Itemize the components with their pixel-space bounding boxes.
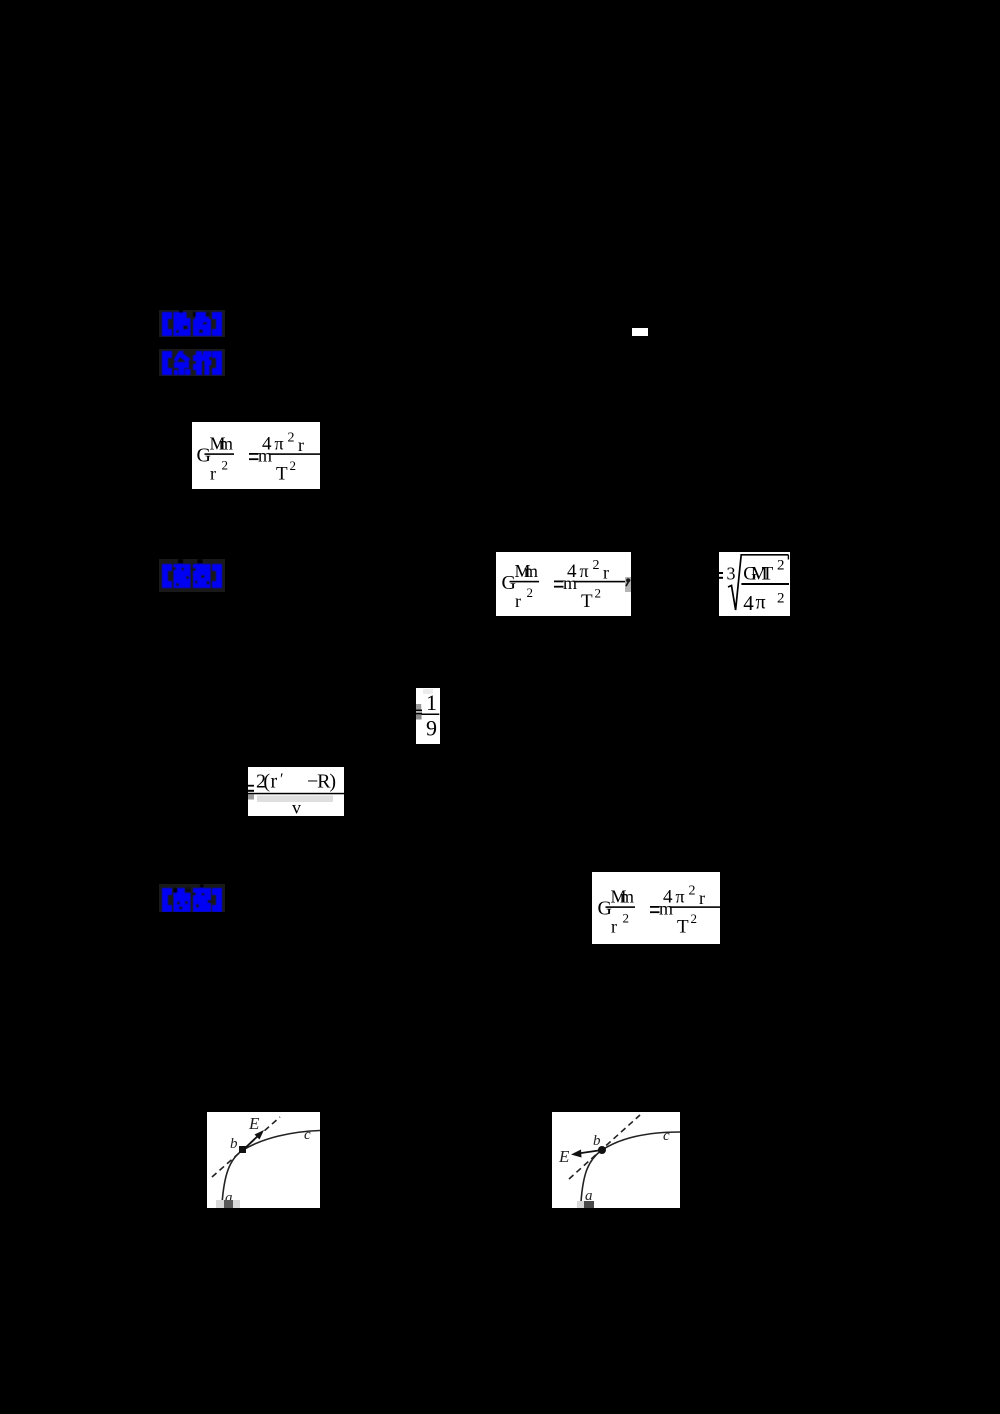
comma artifact on gray selection: [625, 577, 631, 592]
label 分析 (blue tag row 2): [159, 348, 225, 376]
svg-text:E: E: [248, 1114, 260, 1133]
svg-text:2: 2: [777, 591, 785, 607]
curve a to c: [581, 1132, 680, 1202]
figure 1: curve a-b-c with tangent and E arrow up-right: [207, 1112, 320, 1208]
svg-text:r: r: [271, 771, 278, 793]
inline tiny formula image (white fragment): [632, 328, 648, 336]
svg-text:T: T: [677, 917, 689, 938]
svg-text:2: 2: [288, 431, 295, 446]
svg-text:r: r: [603, 563, 609, 583]
formula image 5: = 2(r'-R)/v: [248, 767, 344, 816]
svg-text:π: π: [676, 887, 685, 907]
svg-text:2: 2: [593, 558, 600, 573]
svg-text:E: E: [558, 1147, 570, 1166]
dashed tangent line: [569, 1115, 640, 1179]
E arrow from b to the left: [578, 1150, 602, 1154]
svg-text:c: c: [663, 1128, 670, 1144]
svg-text:3: 3: [727, 564, 736, 584]
svg-text:r: r: [298, 435, 304, 455]
svg-text:2: 2: [689, 884, 696, 899]
svg-text:9: 9: [426, 715, 437, 740]
gray marks at bottom: [216, 1200, 240, 1208]
svg-text:2: 2: [777, 558, 785, 574]
svg-text:Mm: Mm: [210, 434, 234, 454]
formula image 6: G·Mm/r² = m·4π²r/T² (third): [592, 872, 720, 944]
formula image 3: = cube root of GMT²/4π²: [719, 552, 790, 616]
label 考点 (blue tag row 1): [159, 309, 225, 337]
svg-text:GMT: GMT: [743, 564, 773, 585]
svg-text:Mm: Mm: [515, 561, 539, 581]
label 点评 (blue tag row 4): [159, 884, 225, 912]
svg-text:T: T: [581, 591, 593, 612]
svg-text:π: π: [275, 434, 284, 454]
svg-text:r: r: [515, 591, 521, 611]
svg-text:π: π: [580, 561, 589, 581]
svg-text:4: 4: [663, 887, 673, 908]
svg-text:1: 1: [426, 690, 437, 715]
svg-text:2(: 2(: [256, 771, 270, 793]
dashed tangent line: [212, 1117, 280, 1177]
label 解答 (blue tag row 3): [159, 559, 225, 593]
svg-text:c: c: [304, 1127, 311, 1143]
svg-text:b: b: [230, 1136, 238, 1152]
svg-text:2: 2: [527, 585, 534, 600]
svg-text:b: b: [593, 1133, 601, 1149]
labels: [225, 1114, 311, 1206]
svg-text:T: T: [276, 464, 288, 485]
radical sign: [728, 555, 788, 610]
E arrow from b: [243, 1133, 261, 1150]
formula image 2: G·Mm/r² = m·4π²r/T² (second): [496, 552, 631, 616]
svg-text:2: 2: [691, 911, 698, 926]
point b dot: [239, 1146, 246, 1153]
svg-text:r: r: [210, 464, 216, 484]
labels: [558, 1128, 670, 1204]
svg-text:4: 4: [262, 434, 272, 455]
svg-text:′: ′: [280, 771, 284, 788]
svg-text:2: 2: [290, 458, 297, 473]
svg-text:4: 4: [567, 561, 577, 582]
svg-text:4: 4: [743, 591, 754, 615]
formula image 1: G·Mm/r² = m·4π²r/T²: [192, 422, 320, 489]
svg-text:r: r: [699, 888, 705, 908]
svg-text:r: r: [611, 917, 617, 937]
curve a to c: [222, 1131, 320, 1205]
svg-text:π: π: [756, 592, 766, 614]
svg-text:2: 2: [222, 458, 229, 473]
svg-text:2: 2: [595, 586, 602, 601]
svg-text:−R): −R): [307, 771, 336, 793]
point b dot: [598, 1146, 606, 1154]
svg-text:2: 2: [623, 911, 630, 926]
figure 2: curve a-b-c with tangent and E arrow to the left: [552, 1112, 680, 1208]
svg-text:Mm: Mm: [611, 887, 635, 907]
gray marks at bottom: [577, 1201, 585, 1208]
formula image 4: = 1/9: [416, 688, 440, 744]
